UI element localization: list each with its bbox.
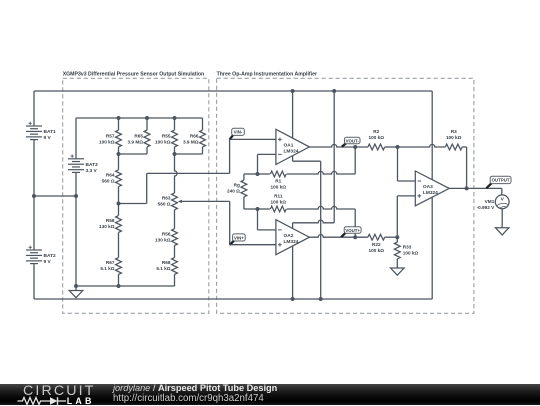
node R3 feedback junction (465, 186, 469, 190)
svg-text:560 Ω: 560 Ω (158, 202, 171, 207)
node top rail R55 (173, 116, 177, 120)
node ground rail R67 (117, 284, 121, 288)
wire R58 to R67 (118, 232, 120, 257)
node battery midpoint right (74, 194, 78, 198)
svg-text:Three Op-Amp Instrumentation A: Three Op-Amp Instrumentation Amplifier (217, 71, 317, 77)
wire N2 to OA2 inverting input (258, 209, 276, 230)
svg-text:LM324: LM324 (284, 239, 299, 245)
wire R55 join to R63 with hop over VIN- tap (175, 154, 178, 193)
wire BAT3 bottom lead (75, 172, 77, 286)
ground GND2 (R33) (391, 268, 405, 275)
wire R68 bottom lead (174, 274, 176, 286)
svg-text:100 kΩ: 100 kΩ (155, 140, 171, 145)
svg-text:OA2: OA2 (284, 233, 294, 239)
url line (113, 393, 264, 404)
wire R3 right to output node (462, 147, 467, 188)
svg-text:OA1: OA1 (284, 142, 294, 148)
wire VIN+ drop (229, 201, 231, 244)
ground GND1 (69, 291, 83, 298)
svg-text:100 kΩ: 100 kΩ (446, 135, 462, 140)
box XGMP3v3 sensor simulation (dashed border) (63, 78, 209, 313)
wire OA3 output (449, 187, 502, 189)
svg-text:Rg: Rg (234, 183, 240, 188)
wire +9V top rail (34, 90, 432, 92)
node VOUT- junction (353, 145, 357, 149)
wire to R3 with hop over OA3 V+ (398, 144, 446, 147)
svg-text:100 kΩ: 100 kΩ (99, 140, 115, 145)
svg-text:100 kΩ: 100 kΩ (369, 248, 385, 253)
svg-text:100 kΩ: 100 kΩ (403, 251, 419, 256)
svg-text:R2: R2 (373, 129, 379, 134)
op-amp OA1 LM324 (276, 129, 310, 164)
node VOUT+ junction (353, 235, 357, 239)
svg-text:R67: R67 (106, 260, 115, 265)
wire OA1 V+ pin to +9V rail (292, 91, 294, 140)
flag VOUT+ (341, 227, 361, 237)
svg-text:R11: R11 (274, 193, 283, 198)
wire R57-R65 bottom join (119, 147, 148, 154)
svg-text:9 V: 9 V (44, 259, 52, 265)
node R57-R65 join (117, 152, 121, 156)
wire R33 to ground (396, 259, 398, 268)
wire BAT1-BAT2 series link (33, 140, 35, 250)
wire R57 top lead (118, 118, 120, 130)
wire VM1 top lead (501, 188, 503, 194)
resistor R22 100 kΩ (368, 234, 385, 253)
wire R67 bottom lead (118, 274, 120, 286)
CircuitLab logo wordmark LAB (67, 396, 95, 406)
svg-text:R22: R22 (372, 242, 381, 247)
wire OA3 noninverting input (397, 196, 415, 237)
ground GND3 (VM1) (495, 228, 509, 235)
resistor R64 560 Ω (102, 170, 122, 187)
svg-text:-0.992 V: -0.992 V (477, 205, 496, 210)
svg-text:R57: R57 (106, 134, 115, 139)
node R2-R3-OA3 node (396, 145, 400, 149)
svg-text:XGMP3v3 Differential Pressure: XGMP3v3 Differential Pressure Sensor Out… (63, 71, 205, 77)
CircuitLab logo wordmark CIRCUIT (23, 383, 96, 399)
svg-text:R55: R55 (162, 134, 171, 139)
voltmeter VM1 -0.992 V (477, 195, 510, 210)
svg-text:9 V: 9 V (44, 135, 52, 141)
svg-text:BAT3: BAT3 (86, 162, 99, 168)
resistor R11 100 kΩ (270, 193, 286, 212)
svg-text:R63: R63 (162, 196, 171, 201)
battery BAT3 3.3 V (68, 155, 98, 174)
wire R22 right lead (385, 236, 398, 238)
svg-text:3.3 V: 3.3 V (86, 168, 98, 174)
wire OA1 V- pin jog (293, 154, 321, 299)
wire OA1 noninverting input (230, 138, 276, 140)
wire R55-R66 bottom join (175, 147, 203, 154)
wire ground stem GND1 (75, 286, 77, 291)
svg-text:R65: R65 (134, 134, 143, 139)
node +9V rail OA1 (291, 89, 295, 93)
wire R56 to R68 (174, 246, 176, 258)
node top rail R57 (117, 116, 121, 120)
svg-text:VIN-: VIN- (234, 130, 243, 135)
node sensor ground rail at BAT3 (74, 284, 78, 288)
node +9V rail OA2 (332, 89, 336, 93)
wire -9V bottom rail (34, 298, 432, 300)
svg-text:100 kΩ: 100 kΩ (369, 135, 385, 140)
wire R11 left lead (258, 208, 270, 210)
wire OA3 inverting input (398, 147, 416, 181)
svg-text:VM1: VM1 (485, 199, 495, 204)
svg-text:560 Ω: 560 Ω (102, 178, 115, 183)
battery BAT1 9 V (26, 122, 56, 141)
svg-text:VOUT-: VOUT- (346, 138, 360, 143)
attribution line (113, 383, 277, 393)
svg-text:R66: R66 (190, 134, 199, 139)
svg-text:LM324: LM324 (423, 190, 438, 196)
svg-text:100 kΩ: 100 kΩ (271, 199, 287, 204)
svg-text:R64: R64 (106, 172, 115, 177)
box Three Op-Amp Instrumentation Amplifier (dashed border) (217, 78, 474, 313)
title XGMP3v3 Differential Pressure Sensor Output Simulation (63, 71, 205, 77)
wire BAT1 top lead (33, 91, 35, 126)
svg-text:3.9 MΩ: 3.9 MΩ (183, 140, 199, 145)
svg-text:R33: R33 (403, 245, 412, 250)
wire sensor top rail (76, 117, 203, 119)
flag VOUT- (342, 137, 360, 147)
svg-text:240 Ω: 240 Ω (227, 189, 240, 194)
wire Rg top corner (244, 174, 258, 180)
wire OA3 V- pin drop (431, 197, 433, 299)
wire R65 top lead (146, 118, 148, 130)
svg-text:VIN+: VIN+ (234, 235, 244, 240)
svg-text:R56: R56 (162, 231, 171, 236)
wire R1 left lead (258, 173, 270, 175)
node -9V rail OA1 (319, 297, 323, 301)
node left chain tap (117, 202, 121, 206)
wire sensor ground rail (76, 285, 175, 287)
wire R1 feedback to OA1 output (354, 147, 356, 174)
wire R2 right lead (385, 146, 398, 148)
svg-text:5.1 kΩ: 5.1 kΩ (100, 266, 114, 271)
svg-text:R58: R58 (106, 218, 115, 223)
wire VM1 to ground (501, 209, 503, 228)
logo diode (50, 397, 66, 405)
resistor R65 3.9 MΩ (128, 130, 150, 147)
resistor R68 5.1 kΩ (156, 258, 177, 275)
resistor R66 3.9 MΩ (183, 130, 205, 147)
battery BAT2 9 V (26, 246, 56, 265)
wire OA2 noninverting input (230, 244, 276, 246)
wire R63 to R56 (174, 210, 176, 229)
resistor R55 100 kΩ (155, 130, 177, 147)
potentiometer R63 560 Ω (158, 193, 182, 210)
resistor Rg 240 Ω (227, 180, 247, 197)
wire R63 wiper to VIN+ corner (181, 200, 230, 202)
op-amp OA2 LM324 (276, 220, 310, 255)
wire OA3 V+ pin drop (431, 91, 433, 180)
node top rail R65 (145, 116, 149, 120)
flag OUTPUT (486, 176, 511, 188)
wire R11 right lead with hops (287, 206, 356, 209)
resistor R2 100 kΩ (368, 129, 385, 150)
svg-text:OA3: OA3 (423, 184, 433, 190)
resistor R56 130 kΩ (155, 229, 177, 246)
node N1 (256, 172, 260, 176)
svg-text:R3: R3 (451, 129, 457, 134)
flag VIN- (230, 128, 245, 139)
wire N1 to OA1 inverting input (258, 154, 276, 174)
svg-text:100 kΩ: 100 kΩ (271, 185, 287, 190)
wire R11 feedback to OA2 output (354, 209, 356, 237)
svg-text:R1: R1 (275, 179, 281, 184)
wire BAT3 top lead (75, 118, 77, 159)
wire battery midpoint tie (34, 195, 76, 197)
svg-text:BAT2: BAT2 (44, 253, 57, 259)
wire R66 top lead (202, 118, 204, 130)
wire R64 to R58 (118, 187, 120, 216)
resistor R1 100 kΩ (270, 171, 286, 190)
svg-text:130 kΩ: 130 kΩ (155, 237, 171, 242)
resistor R67 5.1 kΩ (100, 258, 121, 275)
svg-text:130 kΩ: 130 kΩ (99, 224, 115, 229)
node N2 (256, 207, 260, 211)
svg-text:OUTPUT: OUTPUT (492, 178, 510, 183)
wire R64 top lead (118, 154, 120, 170)
svg-text:5.1 kΩ: 5.1 kΩ (156, 266, 170, 271)
svg-text:LM324: LM324 (284, 148, 299, 154)
node -9V rail OA2 (291, 297, 295, 301)
svg-text:VOUT+: VOUT+ (345, 228, 360, 233)
resistor R33 100 kΩ (394, 237, 418, 259)
wire R55 top lead (174, 118, 176, 130)
logo resistor and diode glyph (17, 396, 69, 406)
svg-text:R68: R68 (162, 260, 171, 265)
svg-text:BAT1: BAT1 (44, 129, 57, 135)
svg-text:3.9 MΩ: 3.9 MΩ (128, 140, 144, 145)
wire BAT2 bottom lead (33, 264, 35, 299)
title Three Op-Amp Instrumentation Amplifier (217, 71, 317, 77)
wire OA2 V- pin to -9V rail (292, 246, 294, 299)
node battery midpoint left (32, 194, 36, 198)
wire R1 right lead with hops (287, 171, 356, 174)
node R22-R33-OA3 node (395, 235, 399, 239)
node R55-R66 join (173, 152, 177, 156)
resistor R58 130 kΩ (99, 216, 121, 233)
op-amp OA3 LM324 (415, 171, 449, 206)
resistor R57 100 kΩ (99, 130, 121, 147)
wire VIN- tap (119, 139, 230, 203)
wire OA2 output with hop (309, 235, 368, 238)
wire Rg bottom corner (244, 197, 258, 209)
flag VIN+ (230, 234, 246, 245)
wire OA2 V+ pin jog with hop (293, 91, 335, 229)
resistor R3 100 kΩ (445, 129, 462, 150)
wire OA1 output with hop (309, 144, 368, 147)
logo wire (18, 397, 51, 404)
